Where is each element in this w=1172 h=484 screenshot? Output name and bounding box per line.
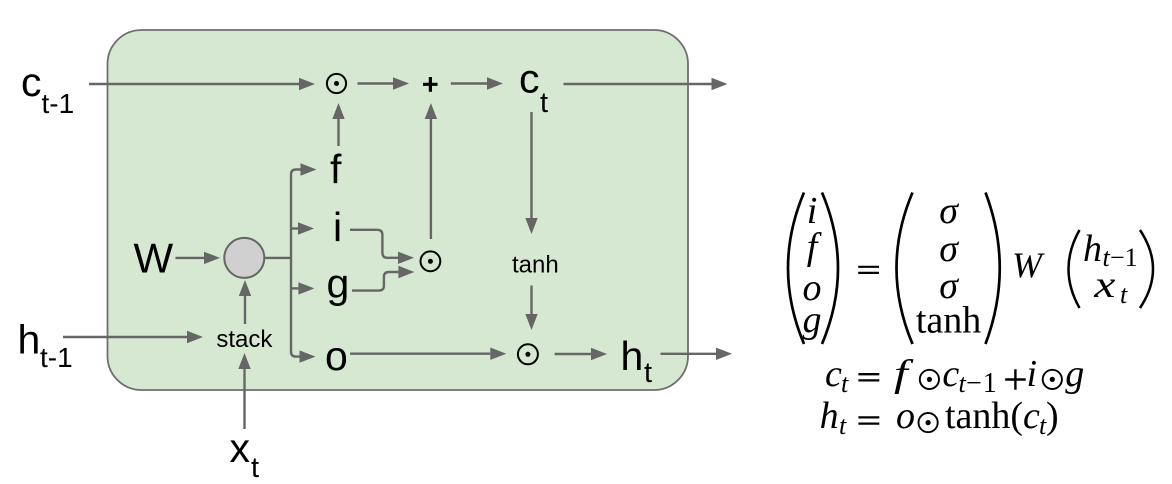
- equation: c_t = f o c_{t-1} + i o g: [825, 352, 1084, 399]
- svg-text:o: o: [896, 395, 915, 437]
- node h_{t-1} label: [18, 317, 73, 374]
- right paren of gate vector: [822, 193, 838, 345]
- svg-text:c: c: [1023, 395, 1040, 437]
- svg-text:t: t: [839, 411, 847, 440]
- svg-text:g: g: [803, 299, 822, 341]
- svg-text:tanh: tanh: [512, 252, 559, 279]
- branch arm to g: [291, 282, 314, 294]
- svg-text:x: x: [230, 425, 251, 471]
- wire h_{t-1} to stack: [63, 331, 203, 343]
- right paren of activation vector: [986, 193, 1000, 345]
- left paren of input vector: [1069, 230, 1080, 308]
- branch trunk with f and o corners: [291, 170, 301, 357]
- svg-text:f: f: [330, 146, 342, 192]
- elementwise multiply node (c line): [327, 74, 346, 93]
- arrowhead into f: [301, 163, 317, 175]
- wire plus to c_t: [451, 77, 503, 89]
- svg-text:h: h: [820, 395, 839, 437]
- wire stack up to matmul: [239, 280, 251, 324]
- wire tanh to output multiply: [525, 286, 537, 331]
- left paren of activation vector: [897, 193, 913, 345]
- elementwise multiply node (output): [518, 344, 538, 364]
- node c_{t-1} label: [21, 59, 74, 119]
- wire f up to multiply: [332, 103, 344, 146]
- wire c_{t-1} to elementwise-multiply: [89, 78, 315, 90]
- left paren of (i f o g) vector: [788, 193, 804, 345]
- odot symbol: [920, 370, 939, 389]
- arrowhead into o: [300, 350, 316, 362]
- svg-text:x: x: [1093, 264, 1115, 306]
- svg-text:i: i: [333, 204, 342, 250]
- elementwise multiply node (i*g): [421, 251, 441, 271]
- svg-text:o: o: [325, 333, 348, 379]
- odot symbol: [1043, 370, 1062, 389]
- svg-text:W: W: [134, 235, 174, 282]
- svg-text:σ: σ: [939, 190, 959, 232]
- svg-text:c: c: [21, 59, 42, 105]
- node x_t label: [230, 425, 260, 484]
- wire W to matmul circle: [176, 252, 221, 264]
- svg-text:stack: stack: [216, 326, 273, 353]
- svg-text:c: c: [825, 353, 842, 395]
- svg-text:c: c: [519, 56, 540, 102]
- svg-text:h: h: [18, 317, 41, 363]
- svg-text:t-1: t-1: [40, 342, 73, 373]
- svg-text:t: t: [841, 369, 849, 398]
- wire multiply to h_t: [555, 348, 607, 360]
- wire matmul to branch trunk: [264, 257, 291, 259]
- wire g to i*g multiply: [352, 266, 414, 291]
- node c_t label: [519, 56, 548, 120]
- svg-text:t: t: [251, 452, 259, 484]
- svg-text:g: g: [327, 261, 350, 307]
- svg-text:c: c: [942, 353, 959, 395]
- wire c_t down to tanh: [525, 112, 537, 234]
- svg-text:h: h: [621, 333, 644, 379]
- wire c_t output: [564, 78, 728, 90]
- right paren of input vector: [1140, 230, 1153, 308]
- plus node: [423, 77, 438, 92]
- wire multiply to plus: [358, 77, 410, 89]
- wire i to i*g multiply: [350, 230, 414, 264]
- svg-text:f: f: [894, 352, 914, 394]
- equation: h_t = o o tanh(c_t): [820, 395, 1059, 440]
- branch arm to i: [291, 222, 314, 234]
- svg-text:W: W: [1012, 245, 1045, 285]
- LSTM cell body (green rounded box): [108, 30, 689, 390]
- svg-text:f: f: [807, 226, 822, 268]
- svg-text:tanh: tanh: [916, 300, 981, 342]
- svg-text:g: g: [1065, 353, 1084, 395]
- svg-text:σ: σ: [939, 228, 959, 270]
- svg-text:t: t: [644, 357, 652, 389]
- svg-text:t: t: [1120, 280, 1128, 309]
- wire i*g multiply up to plus: [425, 103, 437, 239]
- equation: gate vector definition: [788, 190, 1153, 344]
- svg-text:): ): [1046, 395, 1059, 437]
- odot symbol: [919, 413, 938, 432]
- svg-text:tanh(: tanh(: [945, 395, 1023, 437]
- wire x_t up to stack: [238, 353, 250, 429]
- wire h_t output: [661, 348, 733, 360]
- node h_t label: [621, 333, 653, 389]
- matmul node (gray circle): [224, 238, 264, 278]
- svg-text:t: t: [540, 87, 548, 119]
- equals sign: [858, 267, 879, 273]
- svg-text:t-1: t-1: [42, 88, 75, 119]
- svg-text:i: i: [1027, 353, 1038, 395]
- wire o to output multiply: [350, 348, 506, 360]
